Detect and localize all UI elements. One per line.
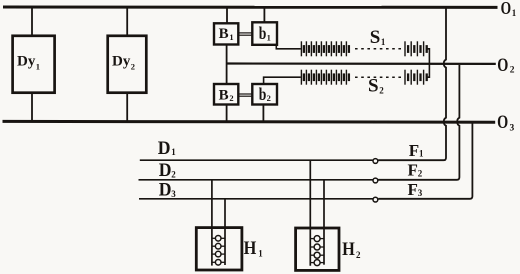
B1 label (219, 26, 234, 42)
battery S2 right cells (405, 70, 424, 85)
wire Dy1 top (31, 7, 33, 37)
wire b1 top (263, 7, 265, 22)
S1 label (370, 27, 386, 48)
battery S1 dotted middle (355, 48, 403, 50)
svg-text:H: H (342, 238, 355, 259)
svg-text:1: 1 (171, 147, 176, 157)
svg-text:S: S (368, 75, 379, 96)
wire B1 top (226, 7, 228, 23)
svg-text:2: 2 (418, 168, 423, 178)
switch b1 (252, 22, 277, 45)
Dy1 label (17, 54, 40, 72)
svg-text:2: 2 (229, 93, 233, 103)
svg-text:Dy: Dy (17, 54, 36, 70)
svg-text:1: 1 (512, 8, 517, 18)
fuse contact F2 circle (373, 178, 378, 183)
D2 label (159, 160, 177, 181)
D3 label (159, 179, 177, 200)
dynamo Dy1 (13, 36, 55, 93)
bus O2 (227, 62, 496, 65)
svg-text:2: 2 (171, 169, 176, 179)
svg-text:D: D (158, 137, 171, 158)
battery S2 left cells (301, 70, 346, 85)
svg-text:2: 2 (510, 66, 515, 76)
switch B2 (214, 84, 238, 105)
wire S2 to O2 hook (427, 64, 430, 77)
svg-text:F: F (408, 180, 418, 199)
B2 label (219, 87, 234, 103)
wire O2 to F2 (vertical x458.8 with crossover hop) (378, 65, 459, 180)
svg-text:2: 2 (267, 93, 271, 103)
svg-text:B: B (219, 26, 229, 42)
battery S1 right cells (405, 41, 424, 56)
wire Dy1 bottom (31, 93, 33, 122)
svg-text:1: 1 (36, 62, 40, 72)
H2 label (342, 238, 361, 260)
bus O1 (3, 6, 498, 9)
wire b1 to S1 lead (276, 45, 301, 49)
F2 label (408, 160, 423, 179)
svg-text:D: D (159, 179, 172, 200)
wire b2 to O3 (262, 105, 264, 122)
Dy2 label (112, 54, 135, 72)
dynamo Dy2 (108, 36, 147, 93)
wire D1 to H2 left rail (309, 160, 311, 266)
wire D2 to H1 left rail (211, 180, 213, 266)
node O2 label (497, 54, 515, 75)
switch b2 (252, 84, 277, 105)
wire D2 to H2 right rail (323, 180, 325, 265)
feeder line D1 (140, 159, 373, 161)
lamp bank H2 box (296, 228, 339, 270)
node O3 label (497, 111, 514, 133)
battery S1 left cells (301, 41, 346, 56)
H1 label (244, 237, 264, 258)
D1 label (158, 137, 177, 158)
wire O1 to F1 (vertical x446 with crossover hops) (378, 9, 446, 161)
b1 label (259, 25, 271, 44)
svg-text:F: F (408, 160, 418, 179)
svg-text:F: F (409, 141, 419, 160)
svg-text:b: b (259, 85, 267, 104)
feeder line D3 (139, 198, 373, 200)
lamp bank H1 box (196, 228, 242, 270)
battery S2 dotted middle (355, 76, 403, 78)
F3 label (408, 180, 423, 199)
svg-text:1: 1 (381, 37, 386, 47)
svg-text:H: H (244, 237, 257, 258)
fuse contact F3 circle (373, 197, 378, 202)
S2 label (368, 75, 384, 96)
svg-text:2: 2 (379, 85, 384, 95)
svg-text:1: 1 (419, 149, 424, 159)
svg-text:3: 3 (510, 124, 515, 134)
b2 label (259, 85, 271, 104)
F1 label (409, 141, 424, 160)
svg-text:Dy: Dy (112, 54, 131, 70)
wire Dy2 bottom (126, 93, 128, 122)
svg-text:S: S (370, 27, 381, 48)
svg-text:3: 3 (171, 189, 176, 199)
svg-text:B: B (219, 87, 229, 103)
svg-text:b: b (259, 25, 267, 44)
link B1-b1 (238, 32, 252, 34)
svg-text:O: O (497, 54, 508, 75)
svg-text:2: 2 (131, 62, 135, 72)
bus O3 (3, 120, 496, 124)
node O1 label (501, 0, 517, 19)
svg-text:D: D (159, 160, 172, 181)
svg-text:1: 1 (258, 248, 263, 258)
switch B1 (214, 23, 238, 44)
wire S1 to O2 hook (427, 49, 430, 64)
fuse contact F1 circle (373, 159, 378, 164)
svg-text:3: 3 (418, 188, 423, 198)
wire Dy2 top (126, 7, 128, 37)
wire D3 to H1 right rail (224, 199, 226, 265)
wire O3 to F3 (vertical x472.3) (378, 123, 472, 199)
svg-text:O: O (501, 0, 512, 19)
feeder line D2 (139, 179, 373, 181)
svg-text:2: 2 (356, 250, 361, 260)
svg-text:1: 1 (229, 32, 233, 42)
lamps H1 (212, 238, 225, 262)
link B2-b2 (238, 93, 252, 95)
svg-text:O: O (497, 111, 508, 132)
wire B1 to B2 (226, 45, 228, 85)
svg-text:1: 1 (267, 32, 271, 42)
lamps H2 (310, 239, 324, 263)
wire b2 to S2 lead (264, 77, 301, 84)
wire B2 to O3 (226, 105, 228, 122)
